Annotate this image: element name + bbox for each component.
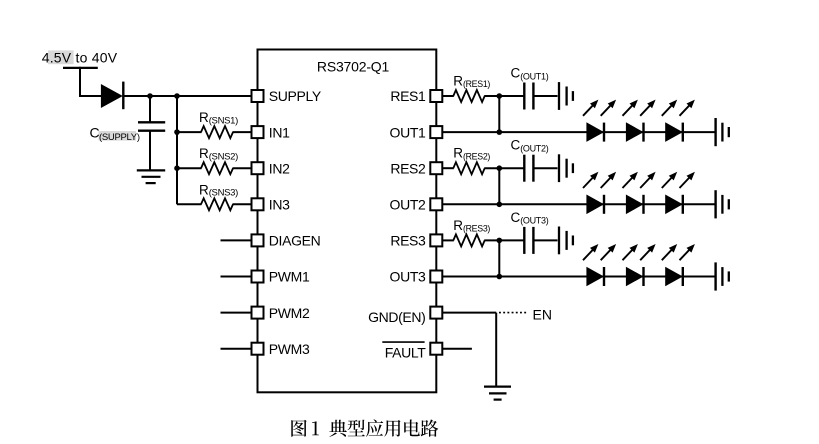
pin label GND(EN) [368, 309, 425, 325]
pin label OUT2 [390, 197, 427, 213]
ground (C out2, rotated) [559, 154, 573, 182]
svg-text:SUPPLY: SUPPLY [269, 88, 322, 104]
wire node down to OUT2 line [498, 168, 500, 204]
wire RES3 pin to R(RES3) [442, 239, 454, 241]
pin label IN2 [269, 160, 290, 176]
wire capacitor C(SUPPLY) to ground [149, 131, 151, 171]
wire R(SNS2) to IN2 pin [233, 167, 253, 169]
svg-text:(SNS3): (SNS3) [209, 188, 238, 199]
pin RES2 terminal square [430, 162, 442, 174]
wire R(SNS3) to IN3 pin [233, 203, 253, 205]
pin label RES1 [390, 88, 426, 104]
capacitor C(OUT2) [511, 138, 549, 182]
svg-text:(SUPPLY): (SUPPLY) [99, 132, 140, 143]
ground (LED string 1, rotated) [716, 118, 729, 146]
node junction sense rail / R(SNS1) [174, 129, 180, 135]
wire C(OUT1) to ground [533, 95, 557, 97]
pin RES1 terminal square [430, 90, 442, 102]
wire stub PWM3 input [221, 348, 251, 350]
node junction OUT3 line [497, 274, 503, 280]
LED D33 with emission arrows [662, 244, 695, 286]
node N2 junction (sense rail tap) [174, 93, 180, 99]
net label 4.5V to 40V (with selection highlight) [42, 50, 118, 66]
wire RES1 pin to R(RES1) [442, 95, 454, 97]
svg-text:FAULT: FAULT [385, 344, 427, 360]
node junction OUT1 line [497, 129, 503, 135]
ground (LED string 2, rotated) [716, 190, 729, 218]
pin PWM1 terminal square [252, 271, 264, 283]
wire OUT3 pin to LED string 3 [442, 276, 717, 278]
svg-text:RES2: RES2 [390, 160, 426, 176]
pin label PWM1 [269, 269, 310, 285]
pin label PWM2 [269, 305, 310, 321]
pin OUT2 terminal square [430, 198, 442, 210]
resistor R(RES2) [453, 146, 490, 175]
pin label PWM3 [269, 341, 310, 357]
svg-text:OUT1: OUT1 [390, 124, 427, 140]
ground (C out1, rotated) [559, 82, 573, 110]
wire R(SNS1) to IN1 pin [233, 131, 253, 133]
resistor R(SNS3) [199, 182, 238, 210]
wire RES2 pin to R(RES2) [442, 167, 454, 169]
op-amp U1 RS3702-Q1 chip body [258, 50, 437, 393]
svg-text:(OUT3): (OUT3) [520, 216, 549, 226]
pin label FAULT with overline [382, 342, 426, 360]
wire R(RES3) to node [484, 239, 523, 241]
supply rail bar [63, 67, 98, 69]
pin label IN3 [269, 197, 290, 213]
svg-text:R: R [453, 218, 463, 233]
svg-text:IN2: IN2 [269, 160, 290, 176]
node junction sense rail / R(SNS2) [174, 165, 180, 171]
svg-text:RES1: RES1 [390, 88, 426, 104]
net label EN [533, 307, 552, 323]
wire node down to OUT1 line [498, 96, 500, 132]
caption 图 1 典型应用电路 [291, 419, 438, 436]
node junction OUT2 line [497, 202, 503, 208]
pin label IN1 [269, 124, 290, 140]
wire R(RES1) to node [484, 95, 523, 97]
ground (GND EN) [484, 387, 511, 400]
svg-text:GND(EN): GND(EN) [368, 309, 425, 325]
svg-text:C: C [511, 210, 521, 225]
ground (C out3, rotated) [559, 227, 573, 255]
pin RES3 terminal square [430, 234, 442, 246]
wire OUT1 pin to LED string 1 [442, 131, 717, 133]
svg-text:(SNS1): (SNS1) [209, 116, 238, 127]
ground (LED string 3, rotated) [716, 262, 729, 290]
pin GND(EN) terminal square [430, 307, 442, 319]
capacitor C(OUT3) [511, 210, 549, 254]
pin label DIAGEN [269, 233, 321, 249]
wire R(RES2) to node [484, 167, 523, 169]
LED D13 with emission arrows [662, 100, 695, 142]
pin label SUPPLY [269, 88, 322, 104]
LED D22 with emission arrows [623, 172, 656, 214]
LED D21 with emission arrows [583, 172, 616, 214]
resistor R(SNS2) [199, 146, 238, 174]
wire node N1 down to capacitor C(SUPPLY) [149, 96, 151, 123]
pin label OUT3 [390, 269, 427, 285]
wire sense rail vertical [176, 96, 178, 204]
node junction RES3 feedback [497, 238, 503, 244]
pin IN2 terminal square [252, 162, 264, 174]
pin label OUT1 [390, 124, 427, 140]
wire supply rail down and right to diode D1 anode [79, 67, 102, 96]
chip title RS3702-Q1 [317, 58, 390, 74]
svg-text:C: C [511, 65, 521, 80]
svg-text:OUT3: OUT3 [390, 269, 427, 285]
svg-text:(SNS2): (SNS2) [209, 152, 238, 163]
LED D23 with emission arrows [662, 172, 695, 214]
diode D1 [101, 82, 123, 110]
wire stub PWM2 input [221, 312, 251, 314]
wire stub PWM1 input [221, 276, 251, 278]
pin OUT3 terminal square [430, 271, 442, 283]
resistor R(RES1) [453, 74, 490, 103]
svg-text:R: R [453, 74, 463, 89]
wire OUT2 pin to LED string 2 [442, 203, 717, 205]
node N1 junction (C_SUPPLY tap) [147, 93, 153, 99]
pin label RES3 [390, 233, 426, 249]
svg-text:EN: EN [533, 307, 552, 323]
svg-text:DIAGEN: DIAGEN [269, 233, 321, 249]
svg-text:4.5V to 40V: 4.5V to 40V [42, 50, 118, 66]
LED D32 with emission arrows [623, 244, 656, 286]
svg-text:PWM3: PWM3 [269, 341, 310, 357]
node junction RES2 feedback [497, 165, 503, 171]
svg-text:C: C [511, 138, 521, 153]
svg-text:R: R [199, 146, 209, 161]
LED D31 with emission arrows [583, 244, 616, 286]
capacitor C(SUPPLY) [90, 122, 166, 143]
wire stub DIAGEN input [221, 239, 251, 241]
pin PWM2 terminal square [252, 307, 264, 319]
capacitor C(OUT1) [511, 65, 549, 109]
LED D12 with emission arrows [623, 100, 656, 142]
LED D11 with emission arrows [583, 100, 616, 142]
wire sense rail to R(SNS1) [177, 131, 202, 133]
svg-text:PWM2: PWM2 [269, 305, 310, 321]
wire diode D1 cathode to SUPPLY pin [123, 95, 252, 97]
pin FAULT terminal square [430, 343, 442, 355]
svg-text:OUT2: OUT2 [390, 197, 427, 213]
svg-text:RES3: RES3 [390, 233, 426, 249]
svg-text:(OUT2): (OUT2) [520, 144, 549, 154]
wire sense rail to R(SNS3) [177, 203, 202, 205]
svg-text:R: R [199, 110, 209, 125]
pin IN1 terminal square [252, 126, 264, 138]
dotted wire to EN net [499, 312, 528, 314]
wire sense rail to R(SNS2) [177, 167, 202, 169]
svg-text:IN1: IN1 [269, 124, 290, 140]
svg-text:IN3: IN3 [269, 197, 290, 213]
svg-text:(RES3): (RES3) [463, 224, 490, 234]
resistor R(RES3) [453, 218, 490, 247]
svg-text:(RES2): (RES2) [463, 151, 490, 161]
svg-text:RS3702-Q1: RS3702-Q1 [317, 58, 390, 74]
svg-text:(RES1): (RES1) [463, 79, 490, 89]
wire stub FAULT output [442, 348, 472, 350]
wire GND(EN) pin to ground [442, 313, 497, 387]
wire node down to OUT3 line [498, 240, 500, 276]
resistor R(SNS1) [199, 110, 238, 138]
pin label RES2 [390, 160, 426, 176]
wire C(OUT3) to ground [533, 239, 557, 241]
wire C(OUT2) to ground [533, 167, 557, 169]
pin DIAGEN terminal square [252, 234, 264, 246]
pin IN3 terminal square [252, 198, 264, 210]
svg-text:PWM1: PWM1 [269, 269, 310, 285]
svg-text:R: R [199, 182, 209, 197]
pin OUT1 terminal square [430, 126, 442, 138]
pin SUPPLY terminal square [252, 90, 264, 102]
svg-text:(OUT1): (OUT1) [520, 71, 549, 81]
node junction RES1 feedback [497, 93, 503, 99]
ground (C supply) [137, 170, 165, 183]
pin PWM3 terminal square [252, 343, 264, 355]
svg-text:R: R [453, 146, 463, 161]
